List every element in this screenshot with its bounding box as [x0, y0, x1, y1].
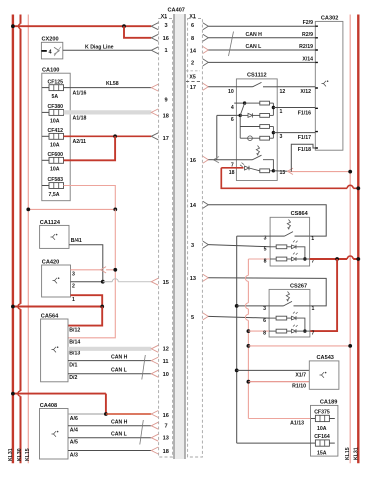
flasher icon CS864	[287, 220, 290, 229]
wire pin5 to CS267 pin6	[208, 316, 269, 318]
pin chevron 1	[151, 47, 158, 54]
photodiode arrows	[240, 163, 244, 167]
separator below X5	[186, 81, 200, 83]
CS864 switch contact	[295, 235, 310, 237]
icon CA1124	[51, 234, 56, 240]
icon CA408	[52, 431, 57, 437]
node KL15 distribution	[113, 208, 117, 212]
svg-text:A/3: A/3	[70, 452, 78, 458]
svg-text:B/12: B/12	[69, 327, 80, 333]
module CA543 box	[309, 361, 339, 389]
module CA1124	[40, 225, 69, 248]
icon CA564	[52, 347, 57, 353]
svg-text:9: 9	[165, 97, 168, 103]
module CA564	[41, 319, 68, 382]
svg-text:10: 10	[228, 89, 234, 95]
svg-text:KL31: KL31	[354, 447, 360, 460]
CS864 LED row5	[292, 245, 297, 249]
pin chevron 3 lower right	[203, 241, 209, 248]
wire CS864 pin7 red to KL31	[310, 258, 359, 260]
CX200 pin stub	[41, 50, 46, 52]
svg-text:F1/17: F1/17	[298, 135, 311, 141]
resistor row D	[260, 136, 270, 140]
TOPLEFT	[11, 23, 158, 59]
rail A-B with pin1 node	[272, 103, 274, 115]
pin chevron 2 right	[203, 59, 209, 66]
svg-text:18: 18	[163, 114, 169, 120]
power rail KL15 left (pink)	[27, 15, 29, 464]
rail C-D with pin3 node	[272, 127, 274, 139]
relay CS864 box	[270, 217, 310, 266]
svg-text:CX200: CX200	[42, 37, 59, 43]
flasher icon CS267	[286, 292, 289, 301]
svg-text:F1/16: F1/16	[298, 110, 311, 116]
fuse box CA189	[311, 405, 338, 456]
svg-text:7,5A: 7,5A	[49, 192, 60, 198]
svg-text:CA408: CA408	[40, 403, 57, 409]
wire pink to KL15 rail	[288, 171, 351, 173]
wire node to B/12 (red)	[68, 307, 102, 326]
connector CX200 box	[41, 42, 62, 59]
svg-text:D/1: D/1	[69, 362, 77, 368]
fuse CF380	[42, 104, 64, 125]
svg-text:K Diag Line: K Diag Line	[85, 44, 114, 50]
node grey net CA543 branch	[235, 369, 239, 373]
svg-text:CS864: CS864	[291, 211, 309, 217]
svg-text:3: 3	[72, 272, 75, 278]
svg-text:8: 8	[264, 259, 267, 265]
wire A/4 CAN H to pin 7	[68, 425, 151, 427]
svg-text:B/14: B/14	[69, 340, 80, 346]
pin chevron 10	[151, 370, 158, 377]
pin chevron 15	[151, 278, 158, 285]
CS1112 switch contact to pin 12	[263, 86, 277, 88]
pin chevron 13 lower right	[203, 274, 209, 281]
wire A1/18 thick to pin 18	[64, 110, 152, 114]
svg-text:5: 5	[191, 315, 194, 321]
svg-text:12: 12	[280, 89, 286, 95]
pin chevron 9	[151, 84, 158, 91]
svg-text:15A: 15A	[317, 451, 327, 457]
node CF600 join	[113, 134, 117, 138]
wire grey net to CS267 pin3	[237, 305, 269, 307]
wire CA420 pin3 (pink)	[71, 269, 101, 271]
svg-text:10A: 10A	[317, 426, 327, 432]
wire pin6 entry	[217, 114, 240, 116]
svg-text:8: 8	[191, 36, 194, 42]
CS864 pin7 node	[303, 257, 306, 260]
wire B/13 thick to pin 12	[68, 347, 151, 351]
svg-text:CA189: CA189	[320, 399, 337, 405]
svg-text:KL15: KL15	[25, 448, 31, 461]
CS267 switch contact	[294, 305, 310, 307]
wire KL15 vertical drop (pink)	[68, 209, 115, 337]
junction on KL31 rail right	[356, 186, 360, 190]
svg-text:X1/7: X1/7	[295, 372, 306, 378]
pin chevron 18	[151, 109, 158, 116]
module CA408	[40, 409, 69, 460]
separator above X5	[186, 70, 200, 72]
wire CF600 to pin17 node (red)	[64, 136, 116, 160]
wire A/3 to pin 18	[68, 450, 151, 452]
power rail KL31 right	[357, 15, 359, 464]
svg-text:15: 15	[163, 280, 169, 286]
svg-text:4: 4	[231, 105, 234, 111]
svg-text:A1/18: A1/18	[73, 115, 87, 121]
grey net vertical	[236, 236, 238, 443]
wire pin2 to CA302 X/14	[208, 61, 315, 63]
connector housing X1/X5 right (dashed)	[188, 19, 203, 458]
svg-text:1: 1	[72, 297, 75, 303]
wire pin6 to CA302 F2/9	[208, 25, 315, 27]
pin chevron 14 right	[203, 47, 209, 54]
connector housing X1 left (dashed)	[159, 19, 173, 458]
svg-text:X5: X5	[189, 74, 195, 80]
svg-text:KL31: KL31	[8, 448, 14, 461]
svg-text:CAN L: CAN L	[246, 44, 263, 50]
node pink CA543 branch	[247, 380, 251, 384]
fuse CF583	[42, 177, 64, 198]
wire pin14 to CS864 pin1	[208, 205, 326, 236]
pink hop over pin13 wire	[245, 275, 248, 281]
wire KL31 to B/12 net (red)	[13, 306, 102, 308]
fuse CF600	[42, 152, 64, 173]
pin chevron 7 lower	[151, 422, 158, 429]
vertical pin6 node down	[239, 115, 241, 138]
svg-text:R2/9: R2/9	[302, 32, 313, 38]
wire pin18 red to KL31 rail	[221, 168, 358, 189]
svg-text:10A: 10A	[50, 119, 60, 125]
wire A2/11 to pin 17 (red)	[64, 135, 152, 137]
CS267 row6 to rail	[296, 318, 305, 331]
svg-text:10: 10	[163, 372, 169, 378]
svg-text:12: 12	[163, 347, 169, 353]
svg-text:1: 1	[165, 48, 168, 54]
svg-text:17: 17	[190, 85, 196, 91]
svg-text:CA1124: CA1124	[40, 220, 61, 226]
wire KL58 to pin 9	[64, 87, 152, 89]
hop of KL30 over wire at y393	[18, 391, 21, 396]
node pin4	[243, 101, 246, 104]
wire A/6 to node	[68, 413, 106, 415]
wire pin13 to CS267 pin1	[208, 278, 326, 306]
wire pin13 out to inline connector	[273, 170, 287, 173]
wire A/5 CAN L to pin 13	[68, 437, 151, 439]
power rail KL30 left (with crossover hops)	[20, 15, 22, 464]
icon CA302	[322, 81, 327, 87]
inline connector chevron	[214, 157, 220, 163]
node grey net CS267 branch	[235, 304, 239, 308]
CS864 resistor row8	[276, 257, 287, 261]
svg-text:6: 6	[191, 23, 194, 29]
wire pin14 CAN L to CA302 R2/19	[208, 49, 315, 51]
pin chevron 16 right	[203, 156, 209, 163]
link pin4-pin6 nodes	[240, 103, 244, 115]
node branch to pin 16	[122, 24, 126, 28]
svg-text:2: 2	[72, 284, 75, 290]
svg-text:18: 18	[229, 170, 235, 176]
svg-text:CA100: CA100	[42, 68, 59, 74]
svg-text:F2/9: F2/9	[303, 20, 313, 26]
svg-text:7: 7	[165, 424, 168, 430]
twisted pair mark CA408	[140, 420, 144, 445]
svg-text:A1/13: A1/13	[290, 420, 304, 426]
node pin3/KL15	[113, 268, 117, 272]
fuse CF164	[311, 434, 335, 457]
svg-text:CS267: CS267	[290, 283, 307, 289]
hop red over KL15 rail	[347, 185, 353, 188]
fuse box CA100	[42, 73, 70, 201]
wire pin17 to CS1112 pin10	[208, 86, 252, 88]
wire diode to resistor	[249, 168, 260, 171]
wire pin1 to CA302 F1/16	[273, 107, 315, 109]
pin chevron 16	[151, 34, 158, 41]
svg-text:16: 16	[190, 158, 196, 164]
svg-text:3: 3	[263, 306, 266, 312]
svg-text:A1/16: A1/16	[73, 91, 87, 97]
svg-text:1: 1	[312, 306, 315, 312]
svg-text:A/6: A/6	[70, 416, 78, 422]
relay unit CS1112 box	[236, 79, 277, 181]
CA100GRP	[26, 68, 158, 338]
RIGHTTOP	[203, 15, 343, 150]
ECU CA302 box	[315, 21, 343, 150]
hop of KL30 over wire at y26	[19, 24, 21, 29]
wire to CS1112 pin 7	[214, 159, 253, 161]
svg-text:D/2: D/2	[69, 375, 77, 381]
svg-text:F1/18: F1/18	[298, 147, 311, 153]
node red branch	[335, 257, 339, 261]
wire KL31 to pin 3 (red)	[13, 25, 151, 27]
junction on KL31 rail at 393	[11, 392, 15, 396]
svg-text:16: 16	[163, 36, 169, 42]
pin chevron 17	[151, 133, 158, 140]
twisted pair mark top	[229, 32, 234, 57]
wire pin2 junction to hop	[103, 281, 113, 283]
pin chevron 12	[151, 345, 158, 352]
module CA420	[42, 265, 71, 297]
node pink tee KL15 link	[247, 344, 251, 348]
wire pin16 to inline connector	[208, 159, 213, 161]
svg-text:14: 14	[190, 203, 197, 209]
svg-text:10A: 10A	[50, 167, 60, 173]
fuse CF125	[42, 79, 64, 100]
pin chevron 3	[151, 23, 158, 30]
svg-text:CAN H: CAN H	[111, 420, 128, 426]
gateway module CA407 body	[174, 14, 184, 459]
wire pink to CA543 R1/10	[248, 381, 309, 383]
svg-text:CAN H: CAN H	[246, 32, 263, 38]
wire D/2 CAN L to pin 10	[68, 373, 151, 375]
svg-text:16: 16	[163, 413, 169, 419]
svg-text:R2/19: R2/19	[299, 44, 313, 50]
resistor row C	[240, 126, 260, 128]
wire branch to pin 16 (red)	[124, 26, 151, 38]
wire pin3 to CA302 F1/17	[273, 132, 315, 134]
icon CA543	[320, 372, 325, 378]
photodiode CS1112	[245, 166, 250, 170]
pin chevron 6 right	[203, 23, 209, 30]
svg-text:5: 5	[264, 246, 267, 252]
wire pin12 to CA302 X/12	[277, 86, 315, 88]
wire grey net to CA543 X1/7	[237, 369, 310, 371]
resistor row B	[260, 114, 270, 118]
CS267 LED row6	[292, 316, 297, 320]
svg-text:B/41: B/41	[71, 238, 82, 244]
svg-text:5A: 5A	[52, 94, 59, 100]
svg-text:CA564: CA564	[41, 313, 59, 319]
CS1112 switch blade	[253, 82, 262, 86]
vertical from CA407 pin16 row	[216, 115, 218, 159]
svg-text:13: 13	[163, 436, 169, 442]
wire pink to CS267 pin8	[248, 330, 269, 332]
svg-text:KL30: KL30	[17, 448, 23, 461]
svg-text:X1: X1	[189, 14, 195, 20]
node pin 13	[272, 169, 275, 172]
node B/12	[100, 305, 104, 309]
node B41 join	[101, 280, 105, 284]
svg-text:3: 3	[165, 23, 168, 29]
junction on KL31 rail 2	[356, 257, 360, 261]
wire F1/18 riser	[291, 144, 315, 171]
pin stub ticks CA302	[315, 26, 318, 148]
wire K Diag Line to pin 1	[63, 49, 152, 51]
pink net vertical right	[247, 259, 249, 419]
svg-text:3: 3	[280, 134, 283, 140]
svg-text:10A: 10A	[50, 143, 60, 149]
pin chevron 18 lower	[151, 447, 158, 454]
svg-text:8: 8	[263, 331, 266, 337]
svg-text:KL15: KL15	[345, 447, 351, 460]
wire pink to CF375	[248, 418, 310, 420]
red vertical to CS267 pin7	[310, 259, 337, 331]
svg-text:CF125: CF125	[48, 79, 64, 85]
CS1112GRP	[203, 73, 360, 191]
pin chevron 14 lower right	[203, 201, 209, 208]
CS864 switch row pin3	[270, 235, 284, 237]
svg-text:17: 17	[163, 136, 169, 142]
CS864 switch blade	[285, 232, 294, 237]
svg-text:CA543: CA543	[317, 355, 334, 361]
hop over KL15 vertical	[112, 279, 118, 282]
wire D/1 CAN H to pin 11	[68, 360, 151, 362]
BOTRIGHT	[235, 355, 339, 457]
pin chevron 16 lower	[151, 411, 158, 418]
resistor row A	[245, 102, 260, 104]
CS1112 switch 2 blade	[253, 155, 262, 160]
junction on KL31 rail at 306	[11, 305, 15, 309]
CS1112 pin 4 stub	[234, 102, 244, 104]
svg-text:CA302: CA302	[321, 15, 338, 21]
svg-text:CAN L: CAN L	[111, 368, 128, 374]
CS267 pin7 node	[303, 329, 306, 332]
pin chevron 11	[151, 357, 158, 364]
wire grey net to CS864 pin3	[237, 235, 270, 237]
relay CS267 box	[269, 289, 310, 337]
CX200 slash	[54, 47, 61, 56]
svg-text:B/13: B/13	[69, 351, 80, 357]
diode row B	[248, 113, 253, 117]
wire pin8 CAN H to CA302 R2/9	[208, 37, 315, 39]
svg-text:X/14: X/14	[302, 56, 313, 62]
wire CF583 to KL15 node (pink)	[64, 186, 116, 210]
svg-text:CF412: CF412	[48, 128, 64, 134]
wire KL31 to A/6 net (red)	[13, 393, 106, 395]
wire pin3 to CS864 pin5	[208, 245, 270, 247]
svg-text:2: 2	[191, 61, 194, 67]
hop red over KL15 rail 2	[347, 256, 353, 259]
CS267 diode row8	[292, 329, 297, 333]
CS267 resistor row8	[276, 329, 287, 333]
node pin6	[239, 114, 242, 117]
CENTER	[159, 8, 203, 460]
junction on KL15 rail	[26, 208, 30, 212]
pin chevron 8 right	[203, 34, 209, 41]
wire KL15 rail to node (pink)	[28, 208, 115, 210]
wire CA420 pin2 to junction	[71, 281, 103, 283]
svg-text:1: 1	[280, 109, 283, 115]
diode row D	[248, 136, 253, 141]
wire B/41 to pin15 net	[69, 245, 103, 282]
flasher icon CS1112	[256, 146, 259, 155]
CS267 switch blade	[284, 301, 293, 306]
svg-text:CF583: CF583	[48, 177, 64, 183]
svg-text:A/5: A/5	[70, 440, 78, 446]
wire pink to KL15 rail low	[248, 345, 350, 347]
pin chevron 17 right	[203, 83, 209, 90]
svg-text:CF375: CF375	[314, 409, 330, 415]
svg-text:R1/10: R1/10	[292, 384, 306, 390]
hop of KL30 over wire at y306	[18, 304, 21, 309]
inline connector chevron pin13	[288, 168, 294, 174]
svg-text:CF380: CF380	[48, 104, 64, 110]
CS267 resistor row6	[276, 316, 287, 320]
inline connector chevron pin3	[101, 267, 107, 273]
node A/6	[104, 412, 108, 416]
svg-text:A/4: A/4	[70, 428, 78, 434]
svg-text:3: 3	[191, 243, 194, 249]
svg-text:CAN H: CAN H	[111, 355, 128, 361]
svg-text:A2/11: A2/11	[73, 139, 87, 145]
svg-text:14: 14	[190, 48, 197, 54]
CS1112 pin 18 red entry	[221, 167, 243, 169]
MODULES	[11, 220, 158, 459]
svg-text:CF600: CF600	[48, 152, 64, 158]
CS1112 switch 2 contact	[263, 160, 273, 171]
icon CA420	[53, 278, 58, 284]
junction on KL31 rail	[11, 24, 15, 28]
power rail KL15 right (pink)	[349, 15, 351, 464]
wire grey net to CF164	[237, 442, 311, 444]
svg-text:1: 1	[311, 236, 314, 242]
svg-text:X/12: X/12	[300, 89, 311, 95]
pin chevron 5 lower right	[203, 313, 209, 320]
svg-text:13: 13	[190, 276, 196, 282]
svg-text:KL58: KL58	[106, 81, 119, 87]
pink hop over pin5 wire	[245, 314, 248, 320]
wire hop to pin 15 (pale)	[118, 281, 151, 283]
CS267 switch row pin3	[269, 305, 283, 307]
junction on KL15 rail low	[348, 344, 352, 348]
pin chevron 13 lower	[151, 434, 158, 441]
CX200 chevron symbol	[54, 47, 59, 54]
svg-text:11: 11	[163, 359, 169, 365]
CSBOXES	[203, 201, 360, 443]
wire node to pin 16 (red)	[106, 413, 151, 415]
wire red drop to A/6	[105, 394, 107, 414]
CS864 resistor row5	[276, 245, 287, 249]
svg-text:18: 18	[163, 449, 169, 455]
